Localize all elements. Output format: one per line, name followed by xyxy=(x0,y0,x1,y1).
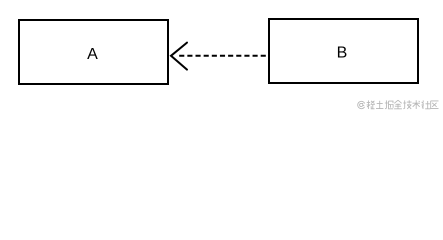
svg-text:A: A xyxy=(87,46,98,63)
watermark glyph 术 xyxy=(412,100,420,109)
watermark @稀土掘金技术社区 xyxy=(358,100,439,109)
box B xyxy=(269,19,418,83)
watermark glyph 土 xyxy=(376,101,383,109)
watermark glyph 社 xyxy=(421,100,430,109)
watermark glyph 稀 xyxy=(367,100,375,109)
watermark glyph 金 xyxy=(394,100,402,109)
watermark glyph @ xyxy=(358,101,365,108)
watermark glyph 掘 xyxy=(385,100,393,109)
watermark glyph 区 xyxy=(431,101,439,109)
svg-text:B: B xyxy=(337,45,348,62)
arrowhead open at A xyxy=(171,43,187,70)
box A xyxy=(19,20,168,84)
watermark glyph 技 xyxy=(403,100,411,109)
wire dashed line from B to A xyxy=(179,55,266,57)
